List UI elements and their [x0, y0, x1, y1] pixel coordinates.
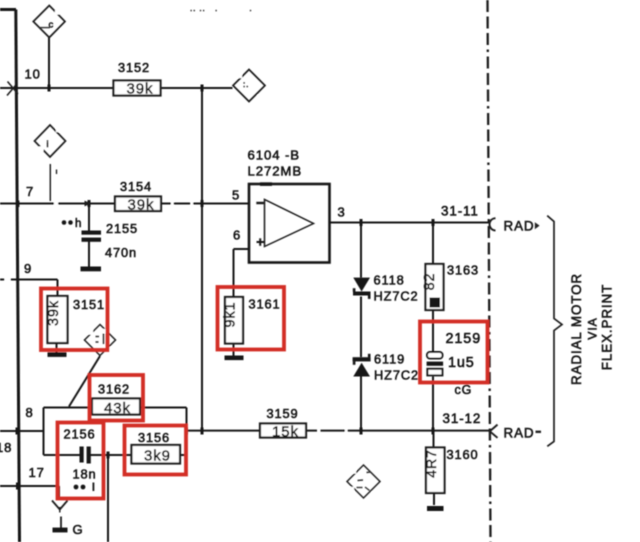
diamond E (bottom middle)	[347, 465, 380, 498]
svg-text:39k: 39k	[128, 197, 155, 214]
wire 3159 row left of resistor	[187, 430, 261, 432]
svg-text:15k: 15k	[272, 423, 299, 440]
COMPONENTS_START	[48, 81, 445, 494]
junction 3159 row / x202	[201, 428, 204, 435]
svg-text:6: 6	[233, 228, 241, 243]
junction node-8 / left bus	[16, 428, 19, 435]
svg-text:9k1: 9k1	[223, 302, 239, 328]
resistor 3163 body (vertical)	[426, 264, 444, 310]
svg-text:c: c	[49, 20, 55, 31]
svg-text:7: 7	[26, 184, 34, 199]
highlight box capacitor 2159	[420, 322, 488, 383]
zener diode 6118	[353, 278, 371, 299]
svg-text:3: 3	[338, 205, 346, 220]
svg-text:8: 8	[26, 405, 34, 420]
resistor 3152 body	[114, 81, 161, 96]
RAD- minus mark	[536, 431, 542, 433]
svg-text:FLEX.PRINT: FLEX.PRINT	[600, 284, 615, 370]
capacitor 2155 plates	[82, 231, 102, 242]
svg-text:1u5: 1u5	[448, 355, 475, 371]
resistor 3151 body (vertical)	[48, 296, 68, 343]
svg-text:3162: 3162	[98, 382, 130, 397]
wire vertical x=186.5 joining 43k row, 3159 row and 3k9 row	[186, 408, 188, 456]
wire node-A vertical (feedback bus x=202)	[201, 88, 203, 431]
footnote mark near 2156	[74, 485, 79, 490]
junction 3159 row / diode column	[360, 428, 363, 435]
RAD+ arrow mark	[535, 222, 540, 229]
diamond D inner mark	[96, 334, 104, 345]
junction node-7 / x202	[201, 200, 204, 207]
resistor 3161 body (vertical)	[225, 297, 243, 344]
svg-text:3160: 3160	[447, 447, 479, 462]
wire 3163 column top lead	[432, 223, 434, 265]
svg-text:3163: 3163	[447, 263, 479, 278]
resistor 3163 safety square mark	[430, 298, 441, 308]
curly brace radial motor	[547, 216, 562, 447]
svg-text:3159: 3159	[267, 406, 299, 421]
svg-text:82: 82	[422, 273, 438, 291]
resistor 3159 body	[260, 424, 306, 438]
wire resistor 3160 bottom lead	[433, 493, 435, 505]
svg-text:10: 10	[25, 67, 41, 82]
highlight box capacitor 2156	[58, 423, 104, 499]
op-amp 6104-B box	[249, 184, 330, 263]
highlight box resistor 3162	[90, 375, 144, 421]
wire 3159 row right of resistor (broken print)	[306, 430, 317, 432]
svg-text:cG: cG	[455, 383, 473, 397]
svg-text:18n: 18n	[73, 467, 97, 482]
diamond E inner mark	[357, 472, 371, 491]
arrow to ground at node 17	[52, 501, 68, 510]
footnote mark near 2155	[62, 220, 67, 225]
highlight box resistor 3151	[41, 289, 108, 351]
resistor 3160 body (vertical)	[426, 448, 445, 494]
diamond A (top-left test point)	[33, 6, 65, 38]
svg-text:470n: 470n	[105, 245, 137, 260]
svg-text:43k: 43k	[104, 400, 131, 417]
svg-text:.. .. . .: .. .. . .	[190, 4, 252, 13]
svg-text::.: :.	[243, 80, 249, 89]
crossing mark X at bus / node-10	[7, 82, 18, 96]
junction output row / 3163 column	[432, 219, 435, 226]
wire diamond-A lead	[48, 36, 50, 88]
wire node-7 row left of 3154	[0, 203, 115, 205]
wire 43k row right of 3162	[140, 407, 187, 409]
svg-text:6104 -B: 6104 -B	[248, 148, 301, 163]
wire diode column above 6118	[360, 223, 362, 278]
junction 2155 branch	[88, 200, 91, 207]
diamond D (near 3151)	[85, 325, 116, 356]
svg-text:3151: 3151	[73, 297, 105, 312]
svg-text:2155: 2155	[106, 221, 138, 236]
highlight box resistor 3161	[218, 287, 285, 350]
svg-text:17: 17	[29, 465, 45, 480]
wire below 2159 to 3159 row	[432, 377, 434, 432]
wire cap row left of 2156	[44, 454, 80, 456]
junction 3159 row / 3163 column	[432, 428, 435, 435]
wire capacitor 2155 branch lower to ground	[88, 242, 90, 267]
wire diamond C dashed lead	[49, 164, 51, 201]
wire node-8 row horizontal	[0, 430, 44, 432]
wire cap row between 2156 and 3156	[91, 454, 133, 456]
ground below capacitor 2155	[81, 267, 102, 272]
highlight box resistor 3156	[125, 426, 187, 475]
wire between 3163 and 2159	[432, 310, 434, 352]
wire diode column between 6118 and 6119	[360, 297, 362, 358]
junction node-17 / left bus	[16, 483, 19, 490]
wire left vertical segment joining rows 8 and caps	[43, 408, 45, 456]
svg-text:L272MB: L272MB	[248, 164, 303, 179]
wire op-amp pin6 down to 3161	[233, 249, 235, 297]
junction node-10 / x202	[201, 85, 204, 92]
capacitor 2159 (1u5) symbol	[427, 352, 444, 375]
wire node-9 row horizontal	[0, 279, 58, 281]
svg-text:4R7: 4R7	[423, 449, 439, 477]
svg-text:31-12: 31-12	[443, 411, 482, 426]
WIRES_START	[0, 10, 490, 542]
resistor 3156 body	[132, 445, 181, 464]
wire node-7 row right of 3154 to op-amp pin5	[161, 203, 249, 205]
wire node-9 down to resistor 3151	[57, 280, 59, 297]
svg-text:VIA: VIA	[586, 317, 600, 339]
junction 3159 row / x186	[185, 428, 188, 435]
wire node-17 row horizontal	[0, 485, 59, 487]
svg-text:i: i	[47, 139, 50, 149]
svg-text:6119: 6119	[374, 352, 405, 367]
svg-text:3161: 3161	[249, 297, 281, 312]
wire top-left corner to left bus	[0, 8, 16, 11]
svg-text:31-11: 31-11	[441, 204, 479, 219]
junction ticks	[16, 85, 435, 490]
svg-text:h: h	[75, 218, 82, 230]
wire 43k row left of 3162	[44, 407, 93, 409]
wire resistor 3161 bottom lead	[233, 344, 235, 357]
svg-text:39k: 39k	[127, 81, 154, 98]
connector 31-12 arrow	[490, 425, 498, 438]
REDBOXES_START	[41, 287, 488, 499]
op-amp triangle	[265, 200, 314, 247]
svg-text:RADIAL MOTOR: RADIAL MOTOR	[569, 273, 584, 385]
svg-text:3154: 3154	[120, 179, 152, 194]
svg-text:HZ7C2: HZ7C2	[374, 368, 419, 383]
op-amp plus sign	[257, 238, 265, 246]
svg-text:G: G	[73, 522, 84, 537]
wire left bus vertical	[16, 10, 20, 542]
ground below resistor 3151	[48, 352, 67, 357]
svg-text:RAD: RAD	[504, 426, 535, 441]
svg-text:5: 5	[232, 188, 240, 203]
svg-text:3152: 3152	[118, 60, 150, 75]
wire exit bottom x=108	[107, 455, 109, 542]
wire capacitor 2155 branch upper	[88, 204, 90, 231]
wire diode column below 6119	[360, 377, 362, 432]
svg-text:9: 9	[24, 261, 32, 276]
svg-text:HZ7C2: HZ7C2	[374, 289, 419, 304]
junction output row / diode column	[360, 219, 363, 226]
wire 3159 row to connector 31-12	[321, 430, 491, 432]
capacitor 2156 plates	[80, 447, 91, 464]
svg-text:RAD: RAD	[504, 219, 535, 234]
wire resistor 3160 top lead	[433, 431, 435, 448]
ground below resistor 3161	[225, 356, 244, 361]
wire diagonal from diamond D to 43k row	[69, 356, 100, 407]
svg-text:18: 18	[0, 440, 12, 455]
svg-text:39k: 39k	[46, 300, 62, 326]
wire op-amp pin3 output row	[330, 222, 491, 224]
junction cap row / x108 exit	[107, 452, 110, 459]
zener diode 6119	[353, 354, 371, 377]
wire resistor 3151 bottom lead	[56, 343, 58, 353]
svg-text:2159: 2159	[446, 331, 482, 347]
print breaks on wires	[5, 202, 348, 433]
wire cap row right of 3156	[178, 454, 187, 456]
wire node-10 row horizontal	[0, 87, 233, 89]
wire op-amp pin6 horizontal	[234, 248, 250, 250]
ground symbol G bottom-left	[60, 517, 62, 529]
junction node-10 / diamond A lead	[48, 85, 51, 92]
op-amp top edge tick	[260, 182, 272, 186]
svg-text:6118: 6118	[374, 273, 405, 288]
diamond B (right of 3152)	[233, 70, 265, 102]
wire node-17 down to arrow	[58, 486, 60, 499]
ground below resistor 3160	[427, 506, 444, 511]
diamond C (row 7)	[35, 125, 66, 157]
dashed flex-print border line	[488, 0, 491, 542]
svg-text:2156: 2156	[64, 427, 96, 442]
junction arrow at capacitor 2155 branch	[85, 201, 92, 207]
svg-text:3156: 3156	[138, 430, 170, 445]
op-amp minus sign	[256, 202, 264, 204]
connector 31-11 socket arc	[490, 218, 496, 230]
resistor 3162 body	[92, 399, 140, 415]
junction node-7 / left bus	[16, 201, 19, 208]
resistor 3154 body	[115, 197, 161, 212]
svg-text:3k9: 3k9	[144, 448, 171, 465]
